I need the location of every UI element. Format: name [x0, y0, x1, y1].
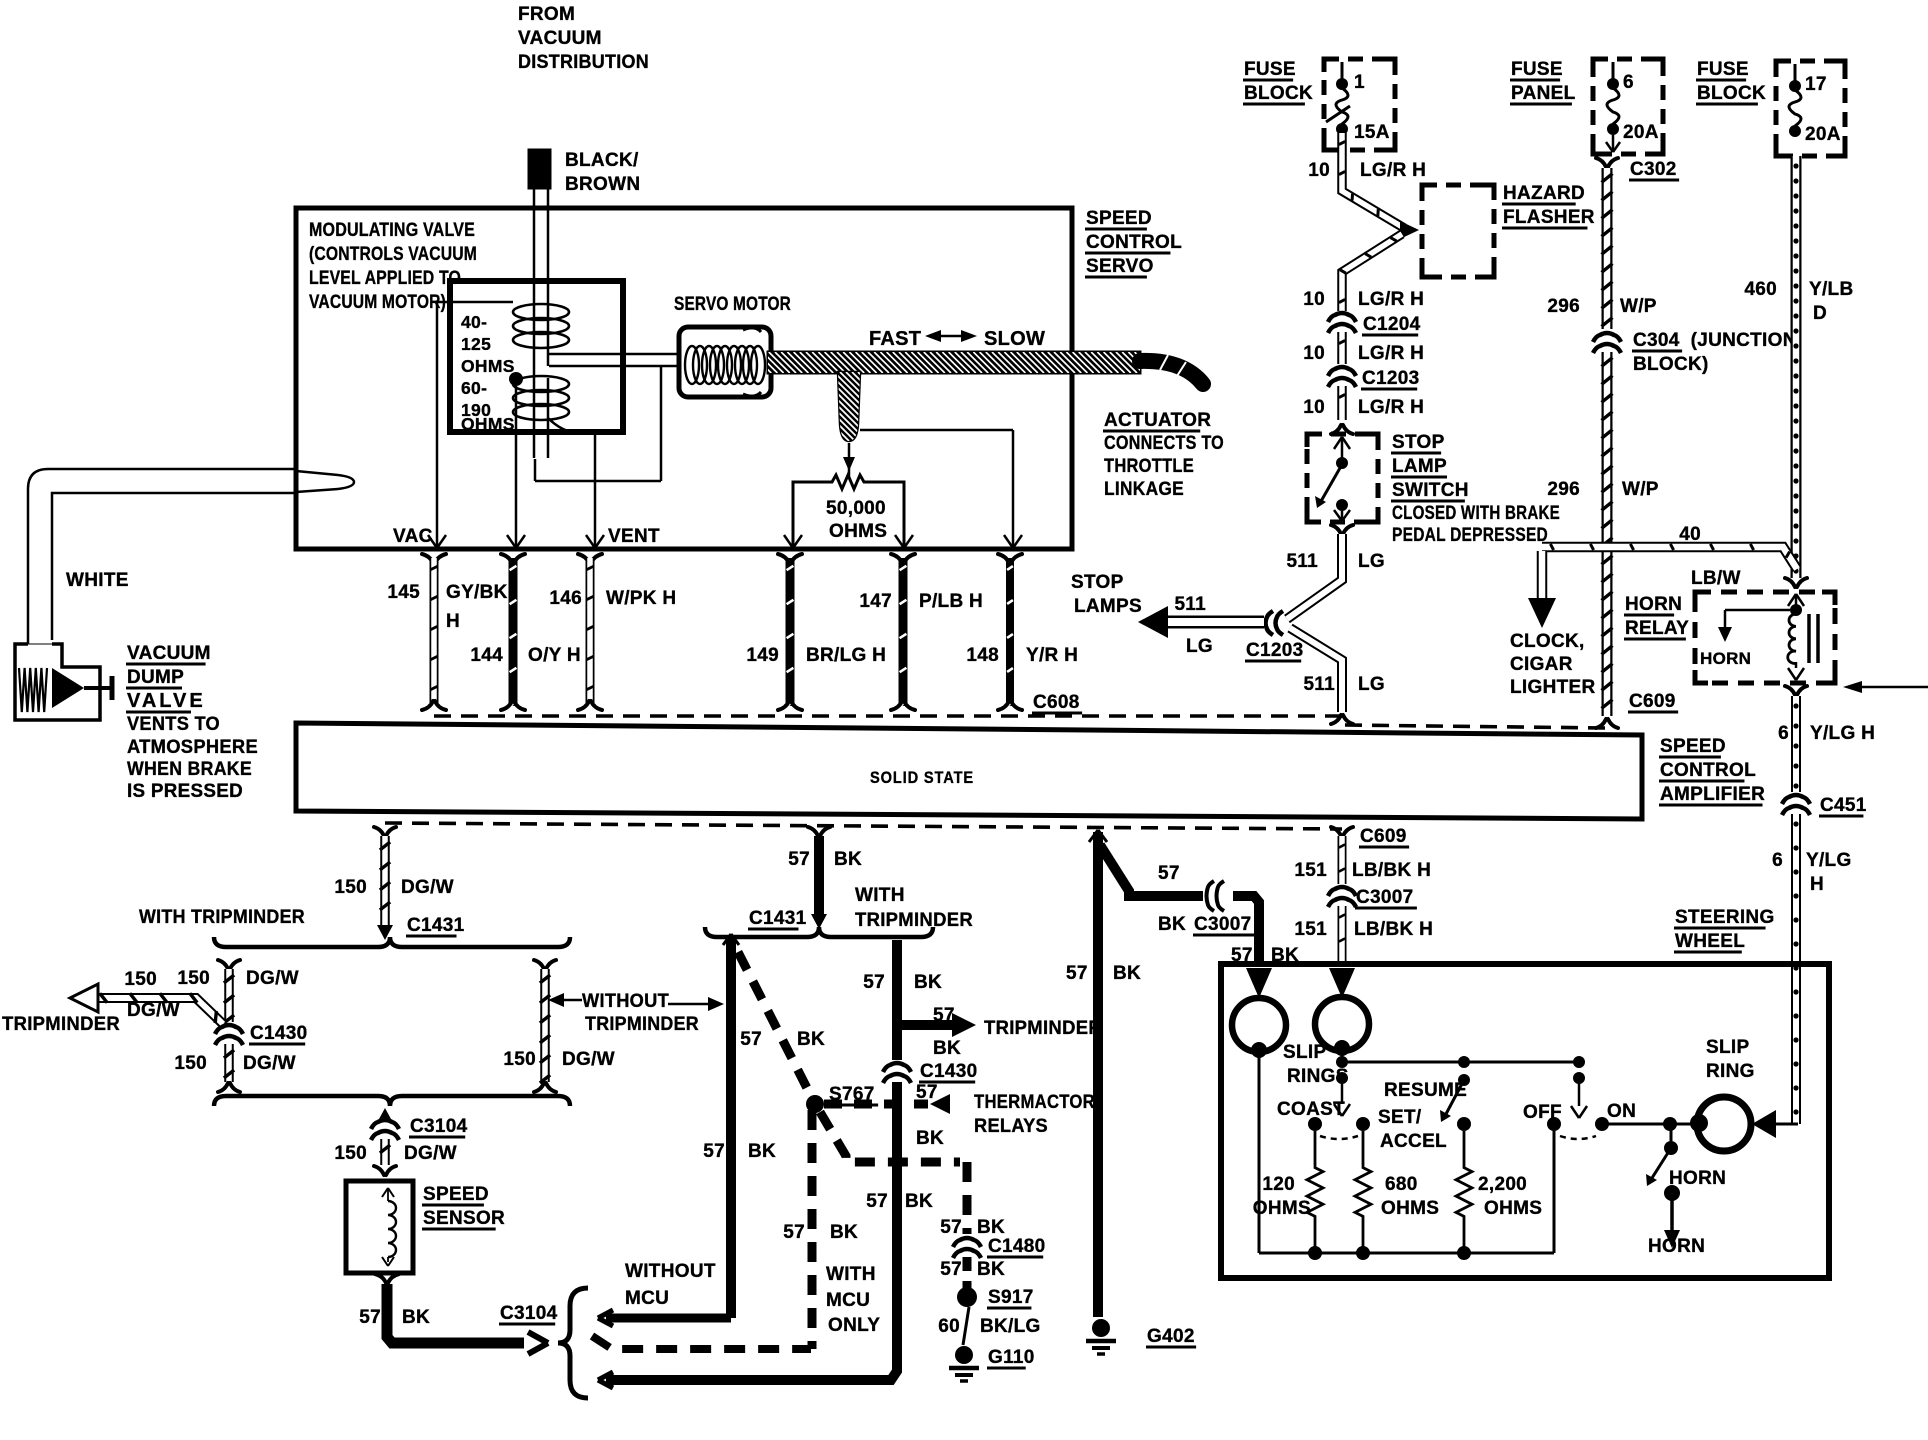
- svg-text:DG/W: DG/W: [562, 1049, 615, 1070]
- svg-text:146: 146: [549, 588, 582, 609]
- svg-text:BK: BK: [1158, 914, 1186, 935]
- svg-text:57: 57: [783, 1222, 805, 1243]
- wire from left slip ring to common rail: [1258, 1050, 1261, 1253]
- svg-text:SLOW: SLOW: [984, 328, 1045, 350]
- svg-text:SENSOR: SENSOR: [423, 1208, 505, 1229]
- label FAST / SLOW with arrows: [869, 328, 1045, 350]
- svg-text:BLOCK: BLOCK: [1697, 83, 1766, 104]
- svg-text:SOLID STATE: SOLID STATE: [870, 768, 974, 787]
- clock cigar lighter feed arrow: [1510, 551, 1596, 698]
- svg-text:57: 57: [863, 972, 885, 993]
- connector C608 dashed bus: [434, 692, 1345, 716]
- svg-text:511: 511: [1303, 674, 1335, 695]
- ground G402: [1086, 1319, 1196, 1354]
- wire 150 DG/W from amplifier: [334, 827, 454, 940]
- label RESUME SET/ACCEL: [1378, 1080, 1467, 1152]
- wire 144 O/Y H: [470, 554, 581, 710]
- slip ring left arrow: [1246, 968, 1272, 998]
- svg-text:145: 145: [387, 582, 420, 603]
- svg-text:P/LB H: P/LB H: [919, 591, 983, 612]
- resistance values text: [461, 312, 515, 434]
- wire 151 LB/BK H lower: [1294, 906, 1433, 962]
- svg-text:FUSE: FUSE: [1511, 59, 1563, 80]
- svg-text:LG/R H: LG/R H: [1358, 289, 1424, 310]
- svg-text:BK: BK: [905, 1191, 933, 1212]
- svg-text:MCU: MCU: [625, 1288, 669, 1309]
- svg-text:(JUNCTION: (JUNCTION: [1691, 330, 1797, 351]
- wire 57 BK from amplifier to C1431: [788, 827, 862, 929]
- svg-text:17: 17: [1805, 74, 1827, 95]
- svg-text:RELAY: RELAY: [1625, 618, 1689, 639]
- C3104 gathering brace: [558, 1288, 588, 1398]
- horn slip ring circle: [1690, 1097, 1751, 1151]
- svg-text:Y/LB: Y/LB: [1809, 279, 1853, 300]
- svg-text:57: 57: [788, 849, 810, 870]
- svg-text:57: 57: [866, 1191, 888, 1212]
- coast-set wiper dashed: [1320, 1136, 1358, 1139]
- wire ON to horn slip ring: [1602, 1117, 1697, 1131]
- dashed wire S767 to C1480: [820, 1112, 1005, 1238]
- stop lamp switch box: [1307, 434, 1378, 522]
- vacuum dump valve: [15, 644, 112, 720]
- svg-text:MODULATING VALVE: MODULATING VALVE: [309, 220, 475, 241]
- svg-text:10: 10: [1303, 289, 1325, 310]
- tap dot on coil: [509, 372, 523, 386]
- svg-text:150: 150: [177, 968, 210, 989]
- label STEERING WHEEL: [1674, 907, 1775, 952]
- svg-text:BK: BK: [914, 972, 942, 993]
- with MCU dashed diagonal to S767: [738, 952, 825, 1098]
- wire 57 BK to ground G402: [1066, 830, 1141, 1317]
- svg-text:C609: C609: [1629, 691, 1676, 712]
- modulating valve upper coil: [513, 304, 569, 348]
- svg-text:RELAYS: RELAYS: [974, 1116, 1048, 1137]
- svg-text:PEDAL DEPRESSED: PEDAL DEPRESSED: [1392, 525, 1548, 546]
- wire 6 Y/LG H lower: [1772, 814, 1851, 1124]
- svg-text:BLOCK: BLOCK: [1244, 83, 1313, 104]
- svg-text:OHMS: OHMS: [1484, 1198, 1542, 1219]
- wire 150 DG/W to speed sensor: [334, 1139, 457, 1175]
- svg-text:BK: BK: [933, 1038, 961, 1059]
- svg-text:C304: C304: [1633, 330, 1680, 351]
- connector C1203 upper: [1328, 367, 1420, 389]
- with MCU only dashed arm: [592, 1336, 811, 1349]
- svg-text:WHEN BRAKE: WHEN BRAKE: [127, 759, 252, 780]
- fuse 1 15A: [1326, 62, 1390, 143]
- arrow from Y/LG wire into slip ring: [1752, 1110, 1798, 1138]
- stop lamp switch internals: [1315, 437, 1350, 521]
- label WITHOUT MCU: [625, 1261, 716, 1309]
- svg-text:H: H: [446, 611, 460, 632]
- wire 10 LG/R H segment 2: [1303, 332, 1424, 364]
- speed control amplifier box SOLID STATE: [296, 723, 1642, 819]
- modulating valve label: [309, 220, 477, 313]
- svg-text:BK: BK: [1113, 963, 1141, 984]
- fuse block 1 label: [1243, 59, 1313, 104]
- connector C451: [1782, 795, 1867, 816]
- dashed wire to thermactor relays: [824, 1092, 1095, 1137]
- svg-text:144: 144: [470, 645, 503, 666]
- wire 148 Y/R H: [966, 554, 1078, 710]
- svg-text:Y/LG H: Y/LG H: [1810, 723, 1875, 744]
- svg-text:LG/R H: LG/R H: [1358, 343, 1424, 364]
- svg-text:2,200: 2,200: [1478, 1174, 1527, 1195]
- horn switch lever: [1646, 1124, 1726, 1189]
- svg-text:LG/R H: LG/R H: [1358, 397, 1424, 418]
- svg-text:150: 150: [334, 1143, 367, 1164]
- svg-text:BK/LG: BK/LG: [980, 1316, 1041, 1337]
- svg-text:150: 150: [334, 877, 367, 898]
- stop lamp switch label: [1391, 432, 1560, 546]
- svg-text:C1204: C1204: [1363, 314, 1421, 335]
- svg-text:150: 150: [174, 1053, 207, 1074]
- wire 146 W/PK H: [549, 554, 676, 710]
- svg-text:D: D: [1813, 303, 1827, 324]
- svg-text:SERVO MOTOR: SERVO MOTOR: [674, 294, 791, 315]
- svg-text:LG: LG: [1186, 636, 1213, 657]
- connector C3007 inline on 57 BK: [1158, 881, 1299, 966]
- tripminder output arrow: [2, 969, 223, 1035]
- svg-text:IS PRESSED: IS PRESSED: [127, 781, 243, 802]
- svg-text:57: 57: [703, 1141, 725, 1162]
- svg-text:DG/W: DG/W: [127, 1000, 180, 1021]
- svg-text:150: 150: [124, 969, 157, 990]
- svg-text:125: 125: [461, 334, 491, 354]
- svg-text:BK: BK: [977, 1217, 1005, 1238]
- svg-text:OHMS: OHMS: [1253, 1198, 1311, 1219]
- without MCU arm: [598, 1310, 731, 1326]
- svg-text:10: 10: [1308, 160, 1330, 181]
- svg-text:Y/R H: Y/R H: [1026, 645, 1078, 666]
- wire 40 LB/W: [1542, 524, 1797, 589]
- svg-text:DG/W: DG/W: [401, 877, 454, 898]
- svg-text:FUSE: FUSE: [1697, 59, 1749, 80]
- svg-text:HAZARD: HAZARD: [1503, 183, 1585, 204]
- svg-text:W/PK H: W/PK H: [606, 588, 676, 609]
- svg-text:BR/LG H: BR/LG H: [806, 645, 886, 666]
- svg-text:STOP: STOP: [1071, 572, 1124, 593]
- svg-text:PANEL: PANEL: [1511, 83, 1576, 104]
- svg-text:RING: RING: [1706, 1061, 1755, 1082]
- wire 296 W/P upper: [1547, 168, 1656, 329]
- svg-text:40: 40: [1679, 524, 1701, 545]
- svg-text:C608: C608: [1033, 692, 1080, 713]
- wire 57 BK below C1430: [606, 1082, 944, 1380]
- with MCU only dashed vertical: [783, 1110, 858, 1349]
- svg-text:WHEEL: WHEEL: [1675, 931, 1745, 952]
- label WITH TRIPMINDER right: [855, 885, 973, 931]
- svg-text:OHMS: OHMS: [461, 414, 515, 434]
- actuator label: [1103, 410, 1224, 500]
- wire VENT from lower coil: [548, 418, 595, 546]
- terminal arrows at servo box bottom: [428, 535, 1022, 548]
- svg-text:OHMS: OHMS: [1381, 1198, 1439, 1219]
- svg-text:VACUUM: VACUUM: [518, 28, 602, 49]
- svg-text:C1431: C1431: [749, 908, 807, 929]
- svg-text:10: 10: [1303, 343, 1325, 364]
- svg-text:C1203: C1203: [1362, 368, 1420, 389]
- svg-text:H: H: [1810, 874, 1824, 895]
- svg-text:C3007: C3007: [1194, 914, 1252, 935]
- connector C1430 inline: [215, 1023, 308, 1045]
- svg-text:BLOCK): BLOCK): [1633, 354, 1709, 375]
- svg-text:680: 680: [1385, 1174, 1418, 1195]
- svg-text:ONLY: ONLY: [828, 1315, 880, 1336]
- svg-text:SPEED: SPEED: [1660, 736, 1726, 757]
- wire 10 LG/R H segment 3: [1303, 386, 1424, 434]
- svg-text:BK: BK: [748, 1141, 776, 1162]
- svg-text:57: 57: [933, 1005, 955, 1026]
- svg-text:HORN: HORN: [1648, 1236, 1705, 1257]
- tripminder bracket top brace: [214, 937, 570, 947]
- svg-text:120: 120: [1262, 1174, 1295, 1195]
- vacuum hose terminal (black/brown): [528, 149, 640, 195]
- vacuum dump valve label: [126, 643, 258, 802]
- svg-text:BK: BK: [830, 1222, 858, 1243]
- slip ring right arrow: [1329, 968, 1355, 998]
- svg-text:151: 151: [1294, 919, 1327, 940]
- svg-text:15A: 15A: [1354, 122, 1390, 143]
- svg-text:147: 147: [859, 591, 892, 612]
- C1431 distribution brace: [705, 927, 933, 937]
- svg-text:COAST: COAST: [1277, 1099, 1345, 1120]
- svg-text:SERVO: SERVO: [1086, 256, 1154, 277]
- svg-text:10: 10: [1303, 397, 1325, 418]
- svg-text:BK: BK: [977, 1259, 1005, 1280]
- svg-text:TRIPMINDER: TRIPMINDER: [2, 1014, 120, 1035]
- svg-text:C3104: C3104: [410, 1116, 468, 1137]
- svg-text:SWITCH: SWITCH: [1392, 480, 1469, 501]
- wire VAC from upper coil: [437, 302, 513, 546]
- svg-text:148: 148: [966, 645, 999, 666]
- svg-text:57: 57: [740, 1029, 762, 1050]
- svg-text:C1430: C1430: [920, 1061, 978, 1082]
- resistor 680 ohms: [1355, 1131, 1439, 1253]
- splice S917: [957, 1287, 1034, 1308]
- label SLIP RINGS: [1283, 1042, 1349, 1087]
- svg-text:SLIP: SLIP: [1706, 1037, 1749, 1058]
- svg-text:W/P: W/P: [1622, 479, 1659, 500]
- svg-text:CLOCK,: CLOCK,: [1510, 631, 1585, 652]
- set/accel contact: [1356, 1117, 1370, 1131]
- wire 296 W/P lower: [1547, 352, 1658, 728]
- svg-text:1: 1: [1354, 72, 1365, 93]
- connector C1430 center: [883, 1061, 978, 1083]
- svg-text:BLACK/: BLACK/: [565, 150, 639, 171]
- fuse block right dashed box: [1776, 61, 1845, 156]
- svg-text:SET/: SET/: [1378, 1107, 1422, 1128]
- connector C3007 inline on 151: [1328, 887, 1417, 908]
- svg-text:TRIPMINDER: TRIPMINDER: [984, 1018, 1102, 1039]
- horn relay label: [1624, 594, 1689, 639]
- svg-text:C1480: C1480: [988, 1236, 1046, 1257]
- svg-text:LB/BK H: LB/BK H: [1354, 919, 1433, 940]
- svg-text:C3007: C3007: [1356, 887, 1414, 908]
- wire from tap to terminal 144: [515, 386, 518, 546]
- svg-text:FUSE: FUSE: [1244, 59, 1296, 80]
- svg-text:151: 151: [1294, 860, 1327, 881]
- label SPEED CONTROL SERVO: [1085, 208, 1182, 277]
- svg-text:ACTUATOR: ACTUATOR: [1104, 410, 1211, 431]
- speed sensor box: [346, 1181, 413, 1273]
- svg-text:WHITE: WHITE: [66, 570, 129, 591]
- svg-text:60: 60: [938, 1316, 960, 1337]
- svg-text:ACCEL: ACCEL: [1380, 1131, 1447, 1152]
- svg-text:Y/LG: Y/LG: [1806, 850, 1852, 871]
- connector C302: [1596, 158, 1679, 180]
- wire 145 GY/BK H: [387, 554, 507, 710]
- svg-text:CIGAR: CIGAR: [1510, 654, 1573, 675]
- svg-text:149: 149: [746, 645, 779, 666]
- svg-text:C451: C451: [1820, 795, 1867, 816]
- svg-text:511: 511: [1286, 551, 1318, 572]
- slip ring right circle: [1315, 997, 1369, 1056]
- svg-text:VALVE: VALVE: [127, 690, 206, 712]
- svg-text:VAC: VAC: [393, 526, 433, 547]
- svg-text:LG/R H: LG/R H: [1360, 160, 1426, 181]
- label WITHOUT TRIPMINDER center: [548, 991, 724, 1035]
- fuse panel dashed box: [1593, 59, 1663, 154]
- steering wheel box: [1221, 964, 1829, 1278]
- svg-text:6: 6: [1772, 850, 1783, 871]
- servo motor: [674, 294, 791, 397]
- ground G110: [949, 1346, 1035, 1381]
- svg-text:FLASHER: FLASHER: [1503, 207, 1595, 228]
- svg-text:SPEED: SPEED: [423, 1184, 489, 1205]
- resume switch lever: [1440, 1056, 1470, 1122]
- svg-text:BK: BK: [402, 1307, 430, 1328]
- vacuum hose to dump valve: [28, 469, 354, 644]
- svg-text:BK: BK: [834, 849, 862, 870]
- switch common node wiring: [1334, 1048, 1579, 1116]
- without tripminder wire 57 BK vertical: [703, 934, 776, 1318]
- tripminder bracket bottom brace: [214, 1096, 570, 1106]
- svg-text:ATMOSPHERE: ATMOSPHERE: [127, 737, 258, 758]
- wire 57 BK from speed sensor: [359, 1274, 548, 1354]
- C1430 return arm: [598, 1372, 888, 1388]
- svg-text:WITH: WITH: [826, 1264, 876, 1285]
- stop lamps arrow: [1071, 572, 1264, 657]
- svg-text:57: 57: [1066, 963, 1088, 984]
- wire 150 DG/W left branch lower: [174, 1044, 296, 1092]
- fuse panel label: [1510, 59, 1576, 104]
- modulating valve lower coil: [513, 376, 569, 420]
- svg-text:57: 57: [940, 1217, 962, 1238]
- svg-text:DG/W: DG/W: [243, 1053, 296, 1074]
- svg-text:CONTROL: CONTROL: [1660, 760, 1756, 781]
- svg-text:WITH TRIPMINDER: WITH TRIPMINDER: [139, 907, 305, 928]
- svg-text:C1203: C1203: [1246, 640, 1304, 661]
- wire 57 BK with tripminder branch: [863, 940, 942, 1060]
- svg-text:THROTTLE: THROTTLE: [1104, 456, 1194, 477]
- svg-text:THERMACTOR: THERMACTOR: [974, 1092, 1095, 1113]
- off-on switch wiring: [1523, 1056, 1636, 1253]
- connector C3104 below bracket: [371, 1108, 468, 1140]
- svg-text:60-: 60-: [461, 378, 487, 398]
- label SLIP RING: [1706, 1037, 1755, 1082]
- connector C1204: [1328, 313, 1421, 335]
- coast contact: [1308, 1117, 1322, 1131]
- svg-text:VACUUM MOTOR): VACUUM MOTOR): [309, 292, 446, 313]
- svg-text:20A: 20A: [1805, 124, 1841, 145]
- svg-text:C3104: C3104: [500, 1303, 558, 1324]
- label FROM VACUUM DISTRIBUTION: [518, 4, 649, 73]
- svg-text:G402: G402: [1147, 1326, 1195, 1347]
- horn output arrow: [1648, 1185, 1705, 1257]
- svg-text:DG/W: DG/W: [246, 968, 299, 989]
- wire 10 LG/R H from fuse to hazard flasher: [1303, 133, 1426, 311]
- svg-text:HORN: HORN: [1669, 1168, 1726, 1189]
- svg-text:57: 57: [359, 1307, 381, 1328]
- horn relay connector top: [1785, 578, 1795, 587]
- splice S767: [806, 1084, 878, 1113]
- svg-text:50,000: 50,000: [826, 498, 886, 519]
- svg-text:FAST: FAST: [869, 328, 921, 350]
- svg-text:(CONTROLS VACUUM: (CONTROLS VACUUM: [309, 244, 477, 265]
- svg-text:150: 150: [503, 1049, 536, 1070]
- wiper feed hatched funnel: [750, 372, 939, 477]
- svg-text:DG/W: DG/W: [404, 1143, 457, 1164]
- svg-text:LG: LG: [1358, 674, 1385, 695]
- svg-text:20A: 20A: [1623, 122, 1659, 143]
- svg-text:LG: LG: [1358, 551, 1385, 572]
- svg-text:MCU: MCU: [826, 1290, 870, 1311]
- hazard flasher box: [1422, 183, 1595, 277]
- resistor 120 ohms: [1253, 1131, 1323, 1253]
- svg-text:296: 296: [1547, 479, 1580, 500]
- svg-text:ON: ON: [1607, 1101, 1636, 1122]
- speed control servo box: [296, 208, 1072, 549]
- wire 511 LG below switch: [1286, 525, 1385, 619]
- svg-text:VENTS TO: VENTS TO: [127, 714, 220, 735]
- wire 60 BK/LG: [938, 1307, 1040, 1345]
- svg-text:SPEED: SPEED: [1086, 208, 1152, 229]
- svg-text:TRIPMINDER: TRIPMINDER: [855, 910, 973, 931]
- speed sensor label: [422, 1184, 505, 1229]
- svg-text:STEERING: STEERING: [1675, 907, 1775, 928]
- svg-text:C302: C302: [1630, 159, 1677, 180]
- wire 460 Y/LB D: [1744, 156, 1853, 578]
- horn relay box: [1695, 592, 1835, 683]
- svg-text:LB/W: LB/W: [1691, 568, 1741, 589]
- svg-text:6: 6: [1778, 723, 1789, 744]
- svg-text:OHMS: OHMS: [829, 521, 887, 542]
- connector C609 wire 151 LB/BK H: [1294, 826, 1431, 884]
- connector C1203 lower: [1245, 611, 1304, 661]
- svg-text:VACUUM: VACUUM: [127, 643, 211, 664]
- svg-text:6: 6: [1623, 72, 1634, 93]
- svg-text:S917: S917: [988, 1287, 1034, 1308]
- svg-text:VENT: VENT: [608, 526, 660, 547]
- svg-text:WITH: WITH: [855, 885, 905, 906]
- svg-text:TRIPMINDER: TRIPMINDER: [585, 1014, 699, 1035]
- svg-text:40-: 40-: [461, 312, 487, 332]
- svg-text:57: 57: [940, 1259, 962, 1280]
- wire 149 BR/LG H: [746, 554, 886, 710]
- svg-text:C1431: C1431: [407, 915, 465, 936]
- actuator hatched bar: [744, 352, 1203, 384]
- svg-text:WITHOUT: WITHOUT: [582, 991, 669, 1012]
- svg-text:W/P: W/P: [1620, 296, 1657, 317]
- wire from funnel to terminal 148: [860, 430, 1013, 546]
- svg-text:BK: BK: [916, 1128, 944, 1149]
- svg-text:LINKAGE: LINKAGE: [1104, 479, 1184, 500]
- svg-text:C1430: C1430: [250, 1023, 308, 1044]
- connector C1480: [953, 1236, 1046, 1258]
- svg-text:FROM: FROM: [518, 4, 575, 25]
- fuse block 1 dashed box: [1324, 59, 1395, 150]
- wire 6 Y/LG H upper: [1778, 686, 1875, 792]
